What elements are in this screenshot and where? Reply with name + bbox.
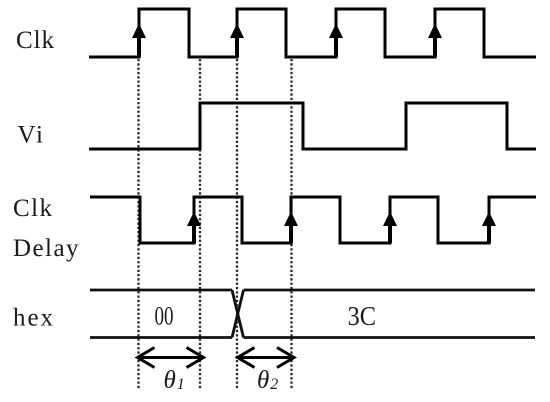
svg-text:Delay: Delay [13, 235, 79, 262]
Clk Delay rising-edge arrow 1 [187, 212, 201, 244]
theta2 dimension double arrow [238, 348, 295, 368]
hex bus top rail [90, 289, 535, 292]
Clk rising-edge arrow 2 [230, 24, 244, 58]
Clk waveform wire [89, 9, 536, 57]
dotted guide line at Vi rise [199, 59, 201, 390]
Clk rising-edge arrow 4 [428, 24, 442, 58]
Clk Delay rising-edge arrow 4 [482, 212, 496, 244]
hex bus crossover X [232, 290, 244, 338]
dotted guide line at Clk Delay rise 2 [290, 59, 292, 390]
svg-text:Clk: Clk [16, 27, 55, 54]
Clk Delay waveform wire [90, 197, 536, 243]
hex bus bottom rail [90, 336, 535, 339]
Clk rising-edge arrow 3 [329, 24, 343, 58]
dotted guide line at Clk rise 2 [236, 59, 238, 390]
Clk rising-edge arrow 1 [132, 24, 146, 58]
svg-text:θ2: θ2 [257, 367, 278, 394]
Clk Delay rising-edge arrow 2 [284, 212, 298, 244]
Clk Delay rising-edge arrow 3 [383, 212, 397, 244]
Vi waveform wire [89, 103, 536, 149]
svg-text:Vi: Vi [18, 122, 44, 149]
svg-text:θ1: θ1 [164, 367, 185, 394]
theta1 dimension double arrow [138, 348, 204, 368]
dotted guide line at Clk rise 1 [137, 59, 139, 390]
svg-text:3C: 3C [348, 301, 377, 331]
svg-text:hex: hex [13, 305, 54, 332]
svg-text:Clk: Clk [13, 195, 53, 222]
svg-text:00: 00 [155, 302, 174, 331]
